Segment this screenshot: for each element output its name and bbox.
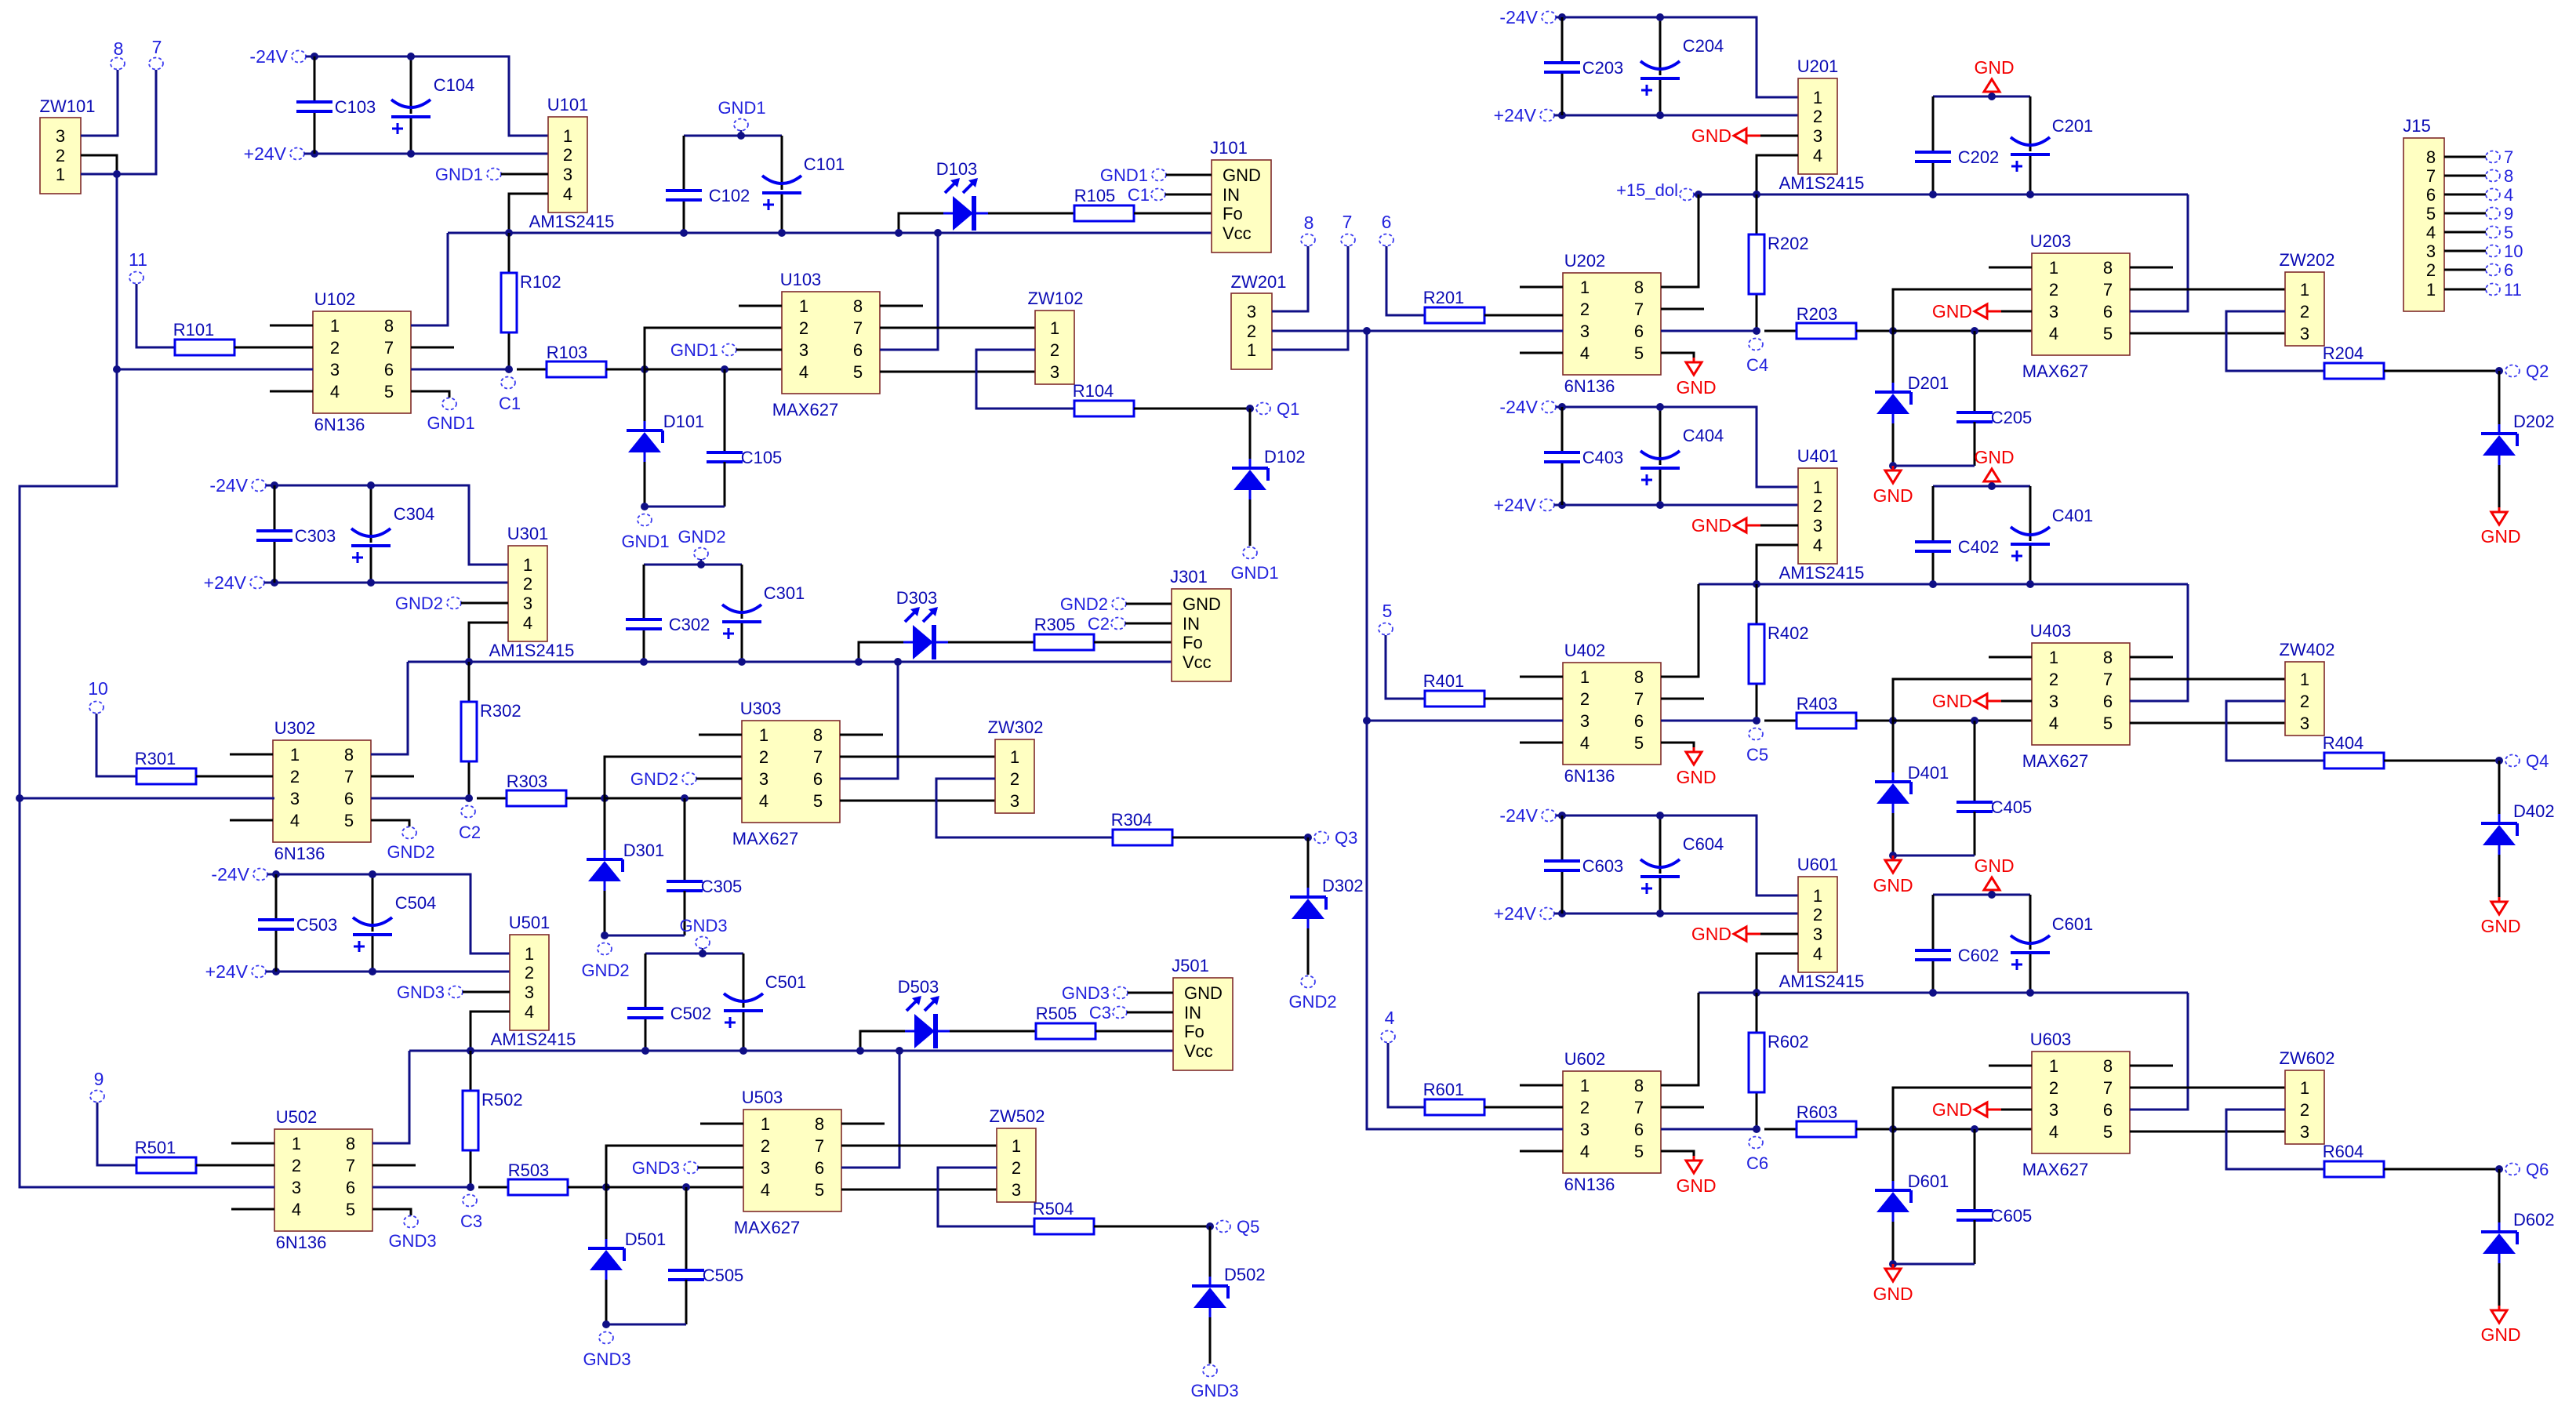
- svg-text:4: 4: [2049, 714, 2058, 733]
- wire R_02 bottom: [1756, 294, 1758, 331]
- junction C_04 top: [369, 870, 376, 878]
- wire U_02 pin 8 riser: [411, 233, 448, 325]
- wire D_02 to ground: [1249, 499, 1252, 546]
- svg-text:3: 3: [2300, 1122, 2309, 1142]
- junction A (D_01): [601, 794, 609, 802]
- wire +15 bus to U_03 pin 6: [840, 662, 898, 779]
- svg-text:R105: R105: [1074, 186, 1116, 205]
- wire C_03 top: [1561, 407, 1564, 452]
- wire cap loop top: [1933, 485, 2030, 488]
- wire U_02 pin 5 stub: [411, 391, 449, 398]
- wire junction A to U_03 pin 2: [606, 1146, 743, 1187]
- svg-text:2: 2: [2426, 260, 2436, 280]
- capacitor C401: [2011, 506, 2093, 561]
- svg-text:3: 3: [2049, 692, 2058, 711]
- ground net label GND1 at U102 pin 5: [427, 398, 474, 434]
- svg-text:GND: GND: [1974, 57, 2014, 78]
- port -24V (channel 5): [211, 864, 267, 884]
- connector ZW102: [1028, 289, 1084, 384]
- resistor R403: [1797, 694, 1856, 728]
- node C4: [1746, 339, 1768, 376]
- svg-text:5: 5: [344, 811, 354, 830]
- capacitor C502: [627, 1004, 711, 1023]
- svg-text:GND1: GND1: [427, 413, 474, 433]
- wire C_02 leg top: [645, 954, 647, 1008]
- DC-DC converter U101 (AM1S2415): [529, 95, 615, 231]
- svg-text:MAX627: MAX627: [732, 829, 798, 848]
- svg-text:-24V: -24V: [1499, 805, 1538, 826]
- svg-text:2: 2: [1580, 1098, 1590, 1117]
- wire D_01 top stem: [605, 1187, 608, 1239]
- svg-text:C403: C403: [1582, 448, 1624, 467]
- svg-text:ZW102: ZW102: [1028, 289, 1084, 308]
- svg-text:2: 2: [292, 1156, 301, 1175]
- port -24V (channel 3): [209, 475, 266, 496]
- svg-text:U102: U102: [314, 289, 356, 309]
- wire GND stub to U_03 pin 3: [2001, 311, 2032, 313]
- svg-text:5: 5: [2426, 204, 2436, 223]
- wire GND stub to U_03 pin 3: [696, 778, 742, 780]
- wire D_01/C_05 ground loop: [605, 935, 685, 937]
- wire LED anode corner: [899, 213, 943, 233]
- DC-DC converter U201 (AM1S2415): [1779, 56, 1865, 193]
- svg-text:3: 3: [292, 1178, 301, 1197]
- svg-text:8: 8: [346, 1134, 355, 1153]
- wire +15V bus: [409, 1050, 1175, 1052]
- svg-text:3: 3: [525, 983, 534, 1002]
- svg-text:4: 4: [1385, 1008, 1395, 1028]
- wire -24V rail: [1556, 17, 1798, 97]
- svg-text:3: 3: [1580, 1120, 1590, 1139]
- junction B (C_05): [1971, 1125, 1978, 1133]
- wire U_03 pin 1 stub: [699, 734, 742, 736]
- wire C_01 leg bottom: [741, 622, 743, 662]
- junction C_04 top: [367, 481, 375, 489]
- capacitor C403: [1544, 448, 1623, 467]
- svg-text:6: 6: [813, 769, 823, 789]
- svg-text:R104: R104: [1073, 381, 1114, 401]
- svg-text:R403: R403: [1797, 694, 1838, 714]
- svg-text:6: 6: [1634, 711, 1644, 731]
- wire GND stub to U_03 pin 3: [698, 1167, 743, 1169]
- svg-text:4: 4: [525, 1002, 534, 1022]
- svg-text:D503: D503: [898, 977, 939, 997]
- svg-text:9: 9: [2504, 204, 2513, 223]
- svg-text:AM1S2415: AM1S2415: [491, 1030, 576, 1049]
- wire R_04 to Q node: [2384, 1168, 2499, 1171]
- junction +15 bus / R_02: [467, 1047, 474, 1055]
- svg-text:1: 1: [759, 725, 768, 745]
- svg-text:U601: U601: [1797, 855, 1839, 874]
- wire GND stub to pin 3: [1760, 135, 1798, 137]
- svg-text:-24V: -24V: [1499, 397, 1538, 417]
- port 5 (J15): [2486, 223, 2513, 242]
- capacitor C605: [1957, 1206, 2032, 1226]
- svg-text:1: 1: [292, 1134, 301, 1153]
- wire port 4 to R601: [1388, 1043, 1425, 1107]
- svg-text:GND1: GND1: [435, 165, 483, 184]
- capacitor C501: [724, 972, 806, 1028]
- junction input bus / U102 pin 3: [113, 365, 121, 373]
- wire C_04 top: [1659, 815, 1662, 874]
- svg-text:1: 1: [523, 555, 532, 575]
- svg-text:10: 10: [88, 678, 108, 699]
- node C5: [1746, 728, 1768, 765]
- wire U_03 pin 5 to ZW pin 3: [880, 371, 1035, 373]
- svg-text:2: 2: [523, 574, 532, 594]
- wire R_04 to Q node: [1134, 408, 1250, 410]
- svg-text:GND1: GND1: [718, 98, 765, 118]
- junction +24V/C_03: [311, 150, 318, 158]
- wire C_04 top: [1659, 407, 1662, 465]
- svg-text:8: 8: [114, 38, 124, 59]
- capacitor C404: [1640, 426, 1724, 485]
- wire +15V bus: [1694, 194, 2188, 196]
- svg-text:4: 4: [1580, 1142, 1590, 1161]
- wire to R_03: [1764, 720, 1797, 722]
- capacitor C205: [1957, 408, 2032, 427]
- wire R601 to U602 pin 2: [1484, 1106, 1563, 1109]
- connector ZW502: [990, 1106, 1045, 1202]
- resistor R603: [1797, 1102, 1856, 1137]
- port 11: [129, 249, 147, 284]
- ground symbol GND at U202 pin 5: [1676, 358, 1716, 398]
- capacitor C201: [2011, 116, 2093, 172]
- svg-text:8: 8: [2426, 147, 2436, 167]
- svg-text:ZW502: ZW502: [990, 1106, 1045, 1126]
- svg-text:U401: U401: [1797, 446, 1839, 466]
- wire C_04 bottom: [1659, 877, 1662, 914]
- svg-text:GND: GND: [1184, 983, 1223, 1003]
- junction +24V/C_03: [271, 579, 278, 587]
- svg-text:U302: U302: [274, 718, 316, 738]
- wire to R_03: [477, 797, 507, 800]
- junction Q node: [2495, 367, 2503, 375]
- svg-text:GND: GND: [1691, 515, 1731, 536]
- wire +15V bus: [1699, 992, 2188, 994]
- junction bus/LED: [856, 1047, 864, 1055]
- ground symbol GND below D202: [2480, 507, 2520, 547]
- svg-text:GND: GND: [1223, 165, 1261, 185]
- connector ZW201: [1231, 272, 1287, 369]
- wire R_05 to J connector Fo: [1094, 641, 1172, 644]
- svg-text:6N136: 6N136: [274, 844, 325, 863]
- svg-text:GND: GND: [1932, 301, 1972, 321]
- svg-text:C101: C101: [804, 154, 845, 174]
- port 8: [111, 38, 125, 70]
- wire C_03 bottom: [1561, 870, 1564, 914]
- wire LED cathode to R_05: [988, 212, 1074, 215]
- wire C_01 leg top: [2029, 895, 2032, 950]
- wire D_01 bottom stem: [1892, 1222, 1895, 1264]
- svg-text:8: 8: [1634, 667, 1644, 687]
- wire U_03 pin 7 to ZW pin 1: [2130, 1087, 2285, 1089]
- node C6: [1746, 1137, 1768, 1174]
- wire D_01 bottom stem: [644, 462, 646, 507]
- junction A (D_01): [1889, 717, 1897, 725]
- wire junction A to U_03 pin 2: [1893, 289, 2032, 331]
- wire U_02 pin 7 stub: [372, 1164, 416, 1167]
- wire C_05 bottom: [1974, 1220, 1976, 1264]
- wire U_03 pin 5 to ZW pin 3: [840, 800, 995, 802]
- svg-text:C204: C204: [1683, 36, 1724, 56]
- capacitor C102: [666, 186, 750, 205]
- wire C_01 leg top: [2029, 486, 2032, 541]
- svg-text:+24V: +24V: [1494, 105, 1537, 125]
- svg-text:6N136: 6N136: [1564, 376, 1615, 396]
- wire C_05 bottom: [684, 891, 686, 935]
- resistor R502: [463, 1090, 523, 1150]
- svg-text:AM1S2415: AM1S2415: [529, 212, 615, 231]
- svg-text:3: 3: [2300, 324, 2309, 343]
- wire C_03 top: [1561, 17, 1564, 63]
- wire U_03 pin 8 stub: [2130, 656, 2173, 659]
- wire U_03 pin 7 to ZW pin 1: [2130, 289, 2285, 291]
- junction cap loop: [1988, 891, 1996, 899]
- port 7 (middle): [1341, 212, 1355, 246]
- svg-text:8: 8: [2103, 258, 2113, 278]
- wire GND stub to pin 3: [1760, 933, 1798, 935]
- zener diode D302: [1290, 876, 1364, 928]
- ground net label GND1 below D101: [621, 514, 669, 552]
- wire U_02 pin 4 stub: [270, 390, 313, 393]
- junction +24V/C_03: [272, 968, 280, 975]
- wire R_02 top: [1756, 993, 1758, 1033]
- ground net label GND2 above C302: [678, 527, 725, 560]
- wire C_05 top: [724, 369, 726, 452]
- svg-text:2: 2: [290, 767, 300, 786]
- svg-text:5: 5: [346, 1200, 355, 1219]
- svg-text:R503: R503: [508, 1161, 550, 1180]
- wire Q node to D_02: [2498, 761, 2501, 814]
- wire C_05 top: [1974, 721, 1976, 802]
- connector ZW202: [2280, 250, 2335, 346]
- svg-text:GND: GND: [2480, 916, 2520, 936]
- svg-text:8: 8: [815, 1114, 824, 1134]
- svg-text:6N136: 6N136: [314, 415, 365, 434]
- svg-text:C504: C504: [395, 893, 437, 913]
- wire C_03 top: [275, 874, 278, 920]
- junction pin6/R_02/R_03: [1753, 1125, 1760, 1133]
- wire ZW101 pin 3 to port 8: [81, 70, 118, 136]
- wire U_03 pin 1 stub: [739, 305, 782, 307]
- capacitor C105: [707, 448, 782, 467]
- wire D_01 bottom stem: [1892, 813, 1895, 855]
- node C3: [460, 1195, 482, 1232]
- ground symbol GND at U603 pin 3: [1932, 1099, 2001, 1120]
- junction input bus / U302 pin 3: [16, 794, 24, 802]
- port -24V (channel 4): [1499, 397, 1556, 417]
- wire C_05 top: [1974, 331, 1976, 412]
- svg-text:U402: U402: [1564, 641, 1606, 660]
- ground net label GND2 at U301 pin 3: [395, 594, 461, 613]
- svg-text:11: 11: [129, 249, 147, 270]
- svg-text:7: 7: [2504, 147, 2513, 167]
- svg-text:-24V: -24V: [211, 864, 249, 884]
- svg-text:2: 2: [1813, 107, 1822, 126]
- svg-text:D302: D302: [1322, 876, 1364, 895]
- svg-text:2: 2: [1580, 300, 1590, 319]
- wire U_03 pin 8 stub: [841, 1123, 885, 1125]
- svg-text:R604: R604: [2323, 1142, 2364, 1161]
- wire U_02 pin 8 riser: [1661, 194, 1699, 287]
- wire C_04 top: [372, 874, 374, 932]
- svg-text:7: 7: [344, 767, 354, 786]
- junction C_01 on bus: [739, 1047, 747, 1055]
- wire +24V rail: [1554, 504, 1798, 507]
- zener diode D301: [587, 841, 664, 891]
- svg-text:GND: GND: [1183, 594, 1221, 614]
- wire C_01 leg top: [741, 565, 743, 619]
- wire port 5 to R401: [1386, 635, 1425, 699]
- svg-text:GND3: GND3: [1190, 1381, 1238, 1400]
- svg-text:5: 5: [1634, 343, 1644, 363]
- svg-text:Q2: Q2: [2526, 361, 2549, 381]
- svg-text:2: 2: [1813, 905, 1822, 924]
- svg-text:8: 8: [813, 725, 823, 745]
- svg-text:4: 4: [330, 382, 340, 401]
- svg-text:6: 6: [2103, 692, 2113, 711]
- wire D_02 to ground: [1209, 1317, 1212, 1364]
- resistor R305: [1034, 615, 1094, 650]
- svg-text:GND: GND: [1932, 1099, 1972, 1120]
- wire C_05 top: [1974, 1129, 1976, 1211]
- svg-text:4: 4: [759, 791, 768, 811]
- wire ZW pin 2 to R_04: [2226, 701, 2324, 761]
- wire U_03 pin 5 to ZW pin 3: [2130, 1131, 2285, 1133]
- svg-text:1: 1: [2300, 670, 2309, 689]
- wire ZW pin 2 to R_04: [2226, 1110, 2324, 1169]
- port 10 (J15): [2486, 242, 2523, 261]
- port +24V (channel 2): [1494, 105, 1554, 125]
- svg-text:1: 1: [1813, 886, 1822, 906]
- wire J15 pin to port 10: [2444, 250, 2486, 252]
- wire cap loop top: [1933, 894, 2030, 896]
- wire D_01/C_05 ground loop: [645, 506, 725, 508]
- capacitor C302: [626, 615, 710, 634]
- wire R101 to U102 pin 2: [234, 347, 313, 349]
- svg-text:D401: D401: [1908, 763, 1949, 783]
- svg-text:2: 2: [2049, 1078, 2058, 1098]
- svg-text:C601: C601: [2052, 914, 2094, 934]
- svg-text:GND3: GND3: [397, 983, 445, 1002]
- wire U_03 pin 8 stub: [840, 734, 883, 736]
- wire C_05 bottom: [1974, 422, 1976, 466]
- wire R_03 to junction A: [606, 369, 645, 371]
- svg-text:GND: GND: [1974, 447, 2014, 467]
- svg-text:8: 8: [2103, 648, 2113, 667]
- wire D_02 to ground: [2498, 1263, 2501, 1306]
- wire to R_03: [1764, 330, 1797, 332]
- ground symbol GND at U401 pin 3: [1691, 515, 1760, 536]
- svg-text:1: 1: [2049, 1056, 2058, 1076]
- svg-text:7: 7: [346, 1156, 355, 1175]
- port -24V (channel 6): [1499, 805, 1556, 826]
- svg-text:C401: C401: [2052, 506, 2094, 525]
- capacitor C301: [722, 583, 805, 639]
- wire ZW101 pin 2: [81, 155, 117, 174]
- resistor R204: [2323, 343, 2384, 379]
- svg-text:1: 1: [1247, 340, 1256, 360]
- wire U_02 pin 6 to R_02: [371, 797, 469, 800]
- svg-text:3: 3: [56, 126, 65, 146]
- svg-text:AM1S2415: AM1S2415: [1779, 173, 1865, 193]
- port Q6: [2505, 1160, 2549, 1179]
- zener diode D502: [1192, 1265, 1266, 1317]
- svg-text:R401: R401: [1423, 671, 1465, 691]
- svg-text:C305: C305: [701, 877, 743, 896]
- svg-text:Q6: Q6: [2526, 1160, 2549, 1179]
- wire port 11 to R101: [136, 284, 175, 347]
- wire GND stub to U_03 pin 3: [2001, 700, 2032, 703]
- svg-text:7: 7: [152, 37, 162, 57]
- wire C_01 leg bottom: [743, 1011, 745, 1051]
- wire +15V bus: [1699, 583, 2188, 586]
- capacitor C104: [391, 75, 474, 134]
- svg-text:MAX627: MAX627: [772, 400, 838, 420]
- svg-text:MAX627: MAX627: [2022, 1160, 2088, 1179]
- wire D_01 bottom stem: [605, 1280, 608, 1324]
- wire D_01 top stem: [604, 798, 606, 850]
- wire U_03 pin 5 to ZW pin 3: [2130, 332, 2285, 335]
- node C3 at J501: [1089, 1003, 1127, 1023]
- wire to R_03: [478, 1186, 508, 1189]
- capacitor C602: [1915, 946, 1999, 965]
- junction ground loop: [1889, 462, 1897, 470]
- svg-text:6: 6: [815, 1158, 824, 1178]
- svg-text:U602: U602: [1564, 1049, 1606, 1069]
- junction B (C_05): [682, 1183, 690, 1191]
- wire junction A to U_03 pin 4: [606, 1186, 743, 1189]
- svg-text:GND: GND: [1691, 125, 1731, 146]
- svg-text:3: 3: [1247, 302, 1256, 321]
- wire C_04 top: [410, 56, 412, 114]
- svg-text:IN: IN: [1183, 614, 1200, 634]
- junction A (D_01): [602, 1183, 610, 1191]
- wire cap loop top: [644, 564, 742, 566]
- svg-text:2: 2: [2049, 280, 2058, 300]
- svg-text:4: 4: [761, 1180, 770, 1200]
- port 10: [88, 678, 108, 714]
- svg-text:3: 3: [1813, 516, 1822, 536]
- svg-text:8: 8: [2103, 1056, 2113, 1076]
- capacitor C504: [353, 893, 436, 952]
- wire LED anode corner: [859, 642, 903, 662]
- wire +24V rail: [1554, 114, 1798, 117]
- junction pin6/R_02/R_03: [1753, 717, 1760, 725]
- wire R_05 to J connector Fo: [1134, 212, 1212, 215]
- svg-text:7: 7: [1634, 300, 1644, 319]
- capacitor C603: [1544, 856, 1623, 876]
- wire R_02 top: [470, 1051, 472, 1091]
- svg-text:U203: U203: [2030, 231, 2072, 251]
- svg-text:R204: R204: [2323, 343, 2364, 363]
- ground net label GND1 at U101 pin 3: [435, 165, 501, 184]
- svg-text:1: 1: [290, 745, 300, 765]
- ground net label GND2 at U303 pin 3: [630, 769, 696, 789]
- svg-text:1: 1: [1580, 278, 1590, 297]
- ground symbol GND at U601 pin 3: [1691, 924, 1760, 944]
- svg-text:C4: C4: [1746, 355, 1768, 375]
- wire GND to J connector: [1166, 174, 1212, 176]
- wire U_02 pin 6 to C node: [1661, 1128, 1757, 1131]
- wire -24V rail: [306, 56, 548, 136]
- svg-text:C605: C605: [1991, 1206, 2033, 1226]
- wire D_01/C_05 ground loop: [606, 1324, 686, 1326]
- svg-text:5: 5: [2103, 714, 2113, 733]
- wire LED anode corner: [860, 1031, 905, 1051]
- svg-text:7: 7: [2103, 1078, 2113, 1098]
